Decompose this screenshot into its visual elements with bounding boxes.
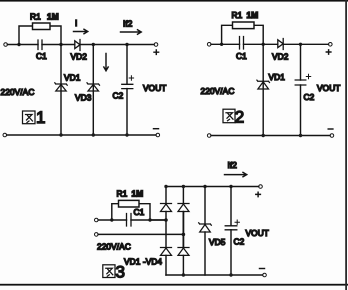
diode VD2 (circuit 2) — [278, 39, 283, 50]
node junction right of C1 — [59, 43, 62, 46]
svg-text:VOUT: VOUT — [143, 83, 166, 93]
svg-text:220V/AC: 220V/AC — [201, 86, 235, 96]
wire thick segment to bridge (circuit 3) — [131, 219, 150, 221]
wire C2 branch (circuit 3) — [230, 187, 232, 226]
node junction C2 top (circuit 2) — [299, 43, 302, 46]
terminal bottom-left (circuit 1) — [3, 133, 7, 137]
border frame bottom — [0, 284, 348, 286]
svg-text:If2: If2 — [228, 160, 238, 170]
wire — [244, 43, 278, 45]
wire — [42, 44, 75, 46]
wire — [80, 44, 154, 46]
svg-text:C1: C1 — [36, 51, 47, 61]
svg-text:VOUT: VOUT — [246, 228, 269, 238]
bridge diode upper-left VD1 — [161, 204, 172, 212]
electrolytic capacitor C2 (circuit 2) — [295, 80, 306, 85]
terminal output bottom-right (circuit 3) — [263, 273, 267, 277]
minus sign (circuit 2 output) — [328, 128, 333, 130]
capacitor C1 (circuit 2) — [240, 37, 244, 50]
svg-text:220V/AC: 220V/AC — [1, 87, 35, 97]
border frame right — [345, 0, 347, 290]
svg-text:VOUT: VOUT — [317, 83, 340, 93]
zener diode VD5 (circuit 3) — [199, 223, 212, 232]
plus sign C2 (circuit 1) — [129, 76, 133, 80]
plus sign C2 (circuit 3) — [235, 220, 239, 224]
svg-text:VD5: VD5 — [209, 237, 226, 247]
plus sign (circuit 3 output) — [256, 192, 261, 196]
node junction right column top (circuit 3) — [182, 185, 185, 188]
zener diode VD1 (circuit 2) — [257, 80, 270, 89]
electrolytic capacitor C2 (circuit 3) — [225, 226, 237, 230]
bridge diode upper-right VD2 — [178, 204, 189, 212]
minus sign (circuit 1 output) — [154, 128, 159, 130]
current arrow If2 (circuit 3) — [225, 172, 247, 176]
svg-text:220V/AC: 220V/AC — [97, 242, 131, 252]
zener diode VD3 (circuit 1) — [87, 83, 100, 91]
node junction C2 bottom — [125, 133, 128, 136]
wire bottom rail circuit 2 — [211, 135, 330, 137]
svg-text:1: 1 — [36, 108, 45, 127]
wire lower AC line (circuit 3) — [98, 233, 183, 235]
svg-text:VD1 -VD4: VD1 -VD4 — [124, 257, 162, 267]
bridge diode lower-left VD3 — [161, 248, 172, 256]
wire top rail circuit 1 — [7, 44, 38, 46]
bridge diode lower-right VD4 — [178, 248, 189, 256]
node junction left column top (circuit 3) — [164, 185, 167, 188]
svg-text:C2: C2 — [234, 237, 245, 247]
svg-text:I: I — [75, 18, 77, 28]
node junction C2 top — [125, 43, 128, 46]
node junction R1 left (circuit 3) — [110, 218, 113, 221]
bridge right column wire — [182, 187, 184, 213]
terminal input lower-left (circuit 3) — [95, 233, 99, 237]
svg-text:C2: C2 — [113, 91, 124, 101]
label Fig1 glyph box — [23, 111, 36, 124]
terminal input upper-left (circuit 3) — [95, 218, 99, 222]
terminal bottom-right (circuit 1) — [156, 133, 160, 137]
border frame top — [0, 0, 348, 2]
wire C2 branch bottom (circuit 2) — [300, 85, 302, 136]
node junction VD3 bottom — [92, 133, 95, 136]
wire VD5 branch (circuit 3) — [204, 187, 206, 276]
node junction C2 top (circuit 3) — [229, 185, 232, 188]
node junction right column bottom (circuit 3) — [182, 273, 185, 276]
zener diode VD1 (circuit 1) — [55, 83, 67, 91]
wire bottom rail (circuit 3) — [166, 274, 263, 276]
resistor R1 (circuit 2) — [222, 22, 264, 44]
wire C2 branch (circuit 2) — [300, 44, 302, 80]
wire upper AC line (circuit 3) — [98, 219, 126, 221]
node junction bridge left mid (circuit 3) — [164, 218, 168, 222]
node junction VD3 top — [92, 43, 95, 46]
label Fig2 glyph box — [223, 109, 235, 123]
minus sign (circuit 3 output) — [260, 268, 265, 270]
wire top rail (circuit 3) — [166, 186, 259, 188]
plus sign (circuit 1 output) — [154, 50, 159, 54]
svg-text:If2: If2 — [123, 19, 133, 29]
node junction VD1 bottom — [59, 133, 62, 136]
node junction C2 bottom (circuit 3) — [229, 273, 232, 276]
svg-text:VD1: VD1 — [269, 72, 286, 82]
svg-text:C1: C1 — [134, 207, 145, 217]
node junction zener bottom (circuit 2) — [262, 134, 265, 137]
terminal bottom-right (circuit 2) — [330, 134, 334, 138]
resistor R1 (circuit 3) — [112, 200, 150, 220]
electrolytic capacitor C2 (circuit 1) — [122, 84, 133, 88]
plus sign C2 (circuit 2) — [306, 74, 310, 78]
terminal input top-left (circuit 1) — [4, 43, 8, 47]
svg-text:VD1: VD1 — [64, 73, 81, 83]
wire C2 branch top — [126, 45, 128, 85]
terminal output top-right (circuit 2) — [329, 43, 333, 47]
wire bottom rail circuit 1 — [7, 134, 156, 136]
current arrow If2 (circuit 1) — [121, 30, 142, 34]
plus sign (circuit 2 output) — [326, 50, 331, 54]
current arrow down (circuit 1) — [104, 54, 108, 71]
svg-text:C1: C1 — [236, 51, 247, 61]
node junction bridge right mid (circuit 3) — [182, 233, 186, 237]
wire — [283, 43, 328, 45]
node junction R1 right (circuit 3) — [148, 218, 151, 221]
wire C2 branch bottom (circuit 3) — [230, 230, 232, 275]
wire VD1 branch — [60, 45, 62, 136]
svg-text:C2: C2 — [304, 92, 315, 102]
svg-text:2: 2 — [235, 108, 244, 127]
svg-text:3: 3 — [116, 263, 125, 282]
capacitor C1 (circuit 3) — [127, 214, 132, 227]
svg-text:VD2: VD2 — [71, 52, 88, 62]
node junction VD5 top (circuit 3) — [203, 185, 206, 188]
wire C2 branch bottom — [126, 89, 128, 135]
bridge left column wire — [165, 187, 167, 276]
wire zener branch (circuit 2) — [262, 44, 264, 135]
wire VD3 branch — [92, 45, 94, 136]
node junction left (circuit 2) — [220, 43, 223, 46]
wire top rail circuit 2 — [211, 43, 240, 45]
terminal output top-right (circuit 3) — [259, 185, 263, 189]
node junction left of C1 — [17, 43, 20, 46]
label Fig3 glyph box — [103, 265, 115, 278]
capacitor C1 (circuit 1) — [38, 40, 42, 50]
node junction right (circuit 2) — [262, 43, 265, 46]
terminal output top-right (circuit 1) — [154, 43, 158, 47]
diode VD2 (circuit 1) — [75, 40, 80, 51]
node junction C2 bottom (circuit 2) — [299, 134, 302, 137]
terminal input top-left (circuit 2) — [207, 43, 211, 47]
svg-text:VD3: VD3 — [75, 93, 92, 103]
terminal bottom-left (circuit 2) — [207, 134, 211, 138]
resistor R1 (circuit 1) — [19, 23, 61, 45]
svg-text:VD2: VD2 — [272, 52, 289, 62]
current arrow I (circuit 1) — [74, 29, 88, 33]
